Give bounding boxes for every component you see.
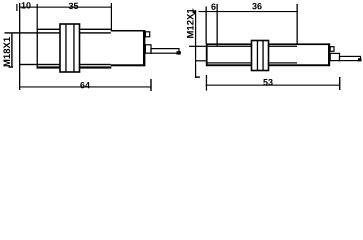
cable end tail [177,51,181,54]
hex nut [60,24,80,72]
tick at thread start [37,4,38,29]
cable gland [145,45,151,53]
bottom dimension line 53 [206,85,340,86]
bottom foot [195,76,200,77]
svg-text:36: 36 [252,1,262,11]
barrel outer bottom (thick) [207,64,252,66]
cable end tail [358,58,362,61]
step vertical at thread start [37,29,38,69]
rear face (thick) [143,30,145,66]
callout dimension bar [11,34,12,68]
top dimension line [19,7,112,8]
tick at 6-start [206,7,207,44]
top stub [194,10,196,14]
barrel outer top [37,29,60,30]
cable [340,56,361,60]
root bottom [207,62,252,63]
svg-text:10: 10 [21,0,31,10]
head bottom [195,60,207,61]
LED bump on rear [330,47,334,52]
barrel outer top [207,43,252,45]
barrel outer bottom (thick) [37,66,60,68]
svg-text:M12X1: M12X1 [186,8,197,39]
thread callout leader + head top + root top [189,46,252,47]
cable [151,49,179,54]
callout bar bottom tick [9,66,14,67]
bottom left extension tick [206,75,207,91]
bottom right extension tick [339,77,340,90]
svg-text:M18X1: M18X1 [2,36,13,67]
bottom right extension tick [150,79,151,91]
cable gland [330,53,339,60]
thread callout leader + head top + thread root top [5,32,61,33]
bottom dimension line 64 [19,86,152,87]
rear face (thick) [328,43,330,66]
svg-text:53: 53 [263,77,273,87]
extension line thread end [297,4,298,45]
svg-text:6: 6 [211,2,216,12]
svg-text:35: 35 [68,1,78,11]
small tick left of extension [16,4,17,11]
svg-text:64: 64 [80,80,90,90]
tick at 6-end [217,4,218,47]
head bottom + thread root bottom [19,64,60,65]
extension line thread end [111,3,112,31]
top dimension line [199,11,298,12]
front face / extension line [19,3,20,90]
front face long vertical [195,10,196,78]
LED bump on rear [145,32,149,37]
hex nut [252,41,269,71]
step vertical [206,43,208,66]
